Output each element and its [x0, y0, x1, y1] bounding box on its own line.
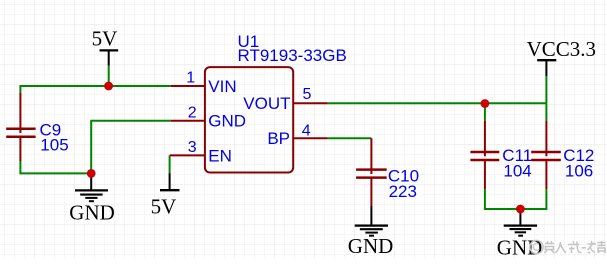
power stem — [169, 173, 171, 190]
pin 4 stub — [293, 137, 328, 139]
wire VOUT rail — [328, 102, 547, 104]
svg-text:5V: 5V — [92, 26, 118, 50]
pin 1 stub — [171, 85, 205, 87]
wire C12 drop — [545, 103, 547, 121]
pin 5 stub — [293, 102, 328, 104]
C10 top plate — [356, 168, 387, 171]
C11 bottom plate — [470, 159, 499, 162]
svg-text:223: 223 — [389, 182, 417, 201]
pin 2 GND — [171, 104, 246, 130]
C9 top lead — [19, 93, 21, 133]
svg-text:4: 4 — [302, 123, 311, 140]
watermark — [530, 240, 606, 253]
svg-text:VCC3.3: VCC3.3 — [527, 37, 596, 61]
wire to C9 — [19, 85, 21, 93]
capacitor C11 — [470, 121, 499, 189]
svg-text:GND: GND — [208, 112, 246, 131]
svg-text:GND: GND — [69, 201, 115, 225]
junction node GND rail — [87, 169, 96, 178]
C12 top lead — [545, 121, 547, 156]
C10 top lead — [370, 138, 372, 174]
wire C9 to gnd rail — [20, 161, 91, 174]
power stem — [108, 51, 110, 66]
wire pin3 to 5V bar — [169, 155, 171, 173]
wire VCC riser — [545, 76, 547, 103]
wire pin2 net — [91, 121, 171, 174]
junction node gnd link — [516, 205, 525, 214]
ground bars — [504, 225, 537, 227]
C12 top plate — [531, 151, 561, 154]
pin 1 VIN — [171, 70, 237, 96]
svg-text:GND: GND — [348, 234, 394, 258]
wire pin4 to C10 — [328, 137, 372, 139]
C9 bottom plate — [6, 135, 35, 138]
svg-text:3: 3 — [188, 139, 197, 156]
ground bars — [355, 225, 388, 227]
wire C11/C12 ground link — [485, 189, 547, 209]
C10 bottom plate — [356, 176, 387, 179]
C11 bottom lead — [484, 160, 486, 189]
ground stem — [519, 209, 521, 226]
svg-text:5: 5 — [303, 86, 312, 103]
power symbol 5V (bottom) — [151, 173, 180, 218]
ground stem — [370, 206, 372, 226]
pin 3 EN — [170, 139, 232, 165]
junction node 5V rail — [104, 82, 113, 91]
C12 bottom lead — [545, 160, 547, 189]
power bar — [160, 189, 180, 191]
pin 3 stub — [170, 154, 205, 156]
power bar — [100, 49, 119, 51]
C10 bottom lead — [370, 178, 372, 206]
svg-text:RT9193-33GB: RT9193-33GB — [238, 46, 347, 65]
C12 bottom plate — [531, 159, 561, 162]
ground (under C10) — [348, 206, 394, 258]
ground (left) — [69, 173, 115, 224]
C9 bottom lead — [19, 137, 21, 161]
svg-text:2: 2 — [188, 104, 197, 121]
ground stem — [90, 173, 92, 190]
junction node VOUT rail — [481, 99, 490, 108]
ground (right) — [497, 209, 543, 260]
wire 5V stem to net — [108, 66, 110, 86]
pin 5 VOUT — [243, 86, 328, 113]
svg-text:EN: EN — [208, 146, 232, 165]
capacitor C10 — [356, 138, 387, 206]
C11 top plate — [470, 151, 499, 154]
svg-text:5V: 5V — [151, 194, 177, 218]
svg-text:GND: GND — [497, 236, 543, 259]
power symbol VCC3.3 — [527, 37, 596, 76]
pin 2 stub — [171, 120, 205, 122]
capacitor C12 — [531, 121, 561, 189]
IC U1 RT9193-33GB body — [205, 67, 293, 172]
svg-text:104: 104 — [503, 161, 531, 180]
svg-text:VIN: VIN — [208, 77, 236, 96]
pin 4 BP — [267, 123, 327, 149]
capacitor C9 — [6, 93, 35, 161]
power symbol 5V (top) — [92, 26, 119, 65]
power bar — [537, 59, 556, 61]
svg-text:1: 1 — [186, 70, 195, 87]
C11 top lead — [484, 121, 486, 156]
svg-text:105: 105 — [40, 136, 68, 155]
ground bars — [75, 189, 108, 191]
svg-text:106: 106 — [565, 161, 593, 180]
svg-text:VOUT: VOUT — [243, 94, 290, 113]
wire main 5V rail — [20, 85, 170, 87]
wire C11 drop — [484, 103, 486, 121]
power stem — [545, 61, 547, 77]
svg-text:BP: BP — [267, 129, 290, 148]
C9 top plate — [6, 127, 35, 130]
